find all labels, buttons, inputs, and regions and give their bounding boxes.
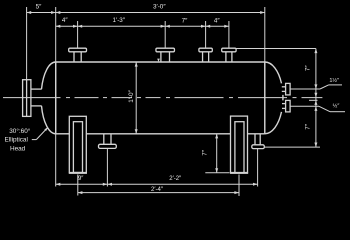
right upper nozzle leader and size label: [290, 77, 342, 89]
bottom left drain nozzle: [99, 134, 117, 149]
dimension 9 inch: [56, 176, 108, 186]
top nozzle N1 with flange: [69, 48, 87, 62]
right upper nozzle: [282, 83, 290, 95]
svg-text:1′-3″: 1′-3″: [113, 17, 126, 24]
right elliptical head: [265, 62, 283, 134]
svg-text:Head: Head: [10, 145, 26, 152]
right lower nozzle flange-top extension: [309, 99, 318, 101]
shell bottom line: [56, 133, 265, 135]
left elliptical head: [42, 62, 56, 134]
extension line at right leg base: [205, 172, 229, 174]
extension line below bottom-left nozzle: [106, 148, 108, 186]
right lower nozzle leader and size label: [290, 103, 345, 112]
extension line above nozzle N2: [164, 21, 166, 48]
extension line above nozzle N3: [205, 21, 207, 48]
left nozzle flange pair: [23, 80, 31, 117]
extension line above nozzle N1: [77, 21, 79, 48]
svg-text:30°:60°: 30°:60°: [9, 127, 31, 135]
right support leg: [230, 116, 248, 173]
centerline crossing arrows: [314, 93, 317, 105]
top nozzle N3 with flange: [199, 48, 212, 62]
top nozzle N2 with flange: [156, 48, 175, 62]
dimension 1 ft 0 inch vessel diameter: [128, 62, 138, 134]
head note text: [4, 127, 30, 152]
right vertical dimension line: [315, 49, 317, 148]
dimension 5 inch: [27, 3, 56, 14]
extension line below left leg: [77, 175, 79, 196]
bottom right drain nozzle: [252, 134, 264, 149]
left support leg: [69, 116, 87, 173]
svg-text:2′-4″: 2′-4″: [151, 187, 164, 193]
svg-text:Elliptical: Elliptical: [4, 137, 27, 144]
extension line at left flange face: [26, 7, 28, 80]
svg-text:4″: 4″: [214, 17, 221, 24]
svg-text:5″: 5″: [36, 3, 43, 10]
svg-text:3′-0″: 3′-0″: [153, 3, 166, 10]
extension line below right leg: [238, 175, 240, 197]
dimension 1 ft 3 inch N1 to N2: [78, 17, 166, 28]
right lower nozzle: [282, 100, 290, 112]
dimension 7 inch leg height: [201, 134, 218, 173]
svg-text:4″: 4″: [62, 17, 69, 24]
extension line at bottom-right flange level: [264, 146, 320, 148]
top nozzle N4 with flange: [222, 48, 236, 62]
shell top line: [56, 61, 265, 63]
svg-text:2′-2″: 2′-2″: [169, 176, 182, 182]
dimension 2 ft 4 inch: [78, 187, 239, 194]
svg-text:½″: ½″: [333, 103, 340, 110]
dimension 7 inch N2 to N3: [165, 17, 205, 27]
extension line above nozzle N4: [228, 21, 230, 48]
dimension 3 ft 0 inch: [56, 3, 265, 14]
dimension 4 inch N3 to N4: [206, 17, 229, 27]
dimension 7 inch lower right: [305, 106, 318, 147]
svg-text:1½″: 1½″: [329, 77, 339, 84]
extension line from N4 flange to right dimension line: [236, 48, 316, 50]
svg-text:7″: 7″: [305, 123, 312, 130]
left tangent seam and extension line: [55, 7, 57, 187]
dimension 2 ft 2 inch: [107, 176, 257, 186]
svg-text:7″: 7″: [182, 17, 189, 24]
left nozzle neck: [31, 89, 42, 106]
vessel center mark: [157, 59, 160, 62]
head note leader: [32, 127, 48, 140]
svg-text:7″: 7″: [305, 65, 312, 72]
svg-text:9″: 9″: [78, 176, 84, 182]
extension line below bottom-right nozzle: [257, 149, 259, 187]
svg-text:1′-0″: 1′-0″: [128, 89, 135, 102]
dimension 4 inch tangent to N1: [56, 17, 78, 28]
right tangent seam and extension line: [264, 7, 266, 134]
dimension 7 inch upper right: [305, 49, 318, 90]
svg-text:7″: 7″: [201, 149, 208, 156]
centerline of vessel: [3, 97, 322, 99]
